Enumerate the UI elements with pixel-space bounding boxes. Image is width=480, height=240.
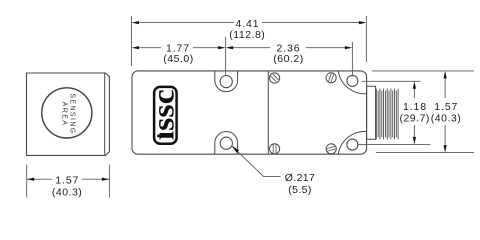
issc logo i-dot [157, 135, 160, 138]
svg-text:(40.3): (40.3) [431, 113, 461, 125]
dim 1.18 arrows [413, 81, 416, 89]
dim 1.57 extension line top [372, 70, 474, 72]
svg-text:1.18: 1.18 [403, 101, 427, 113]
dim mid extension line [225, 37, 227, 75]
svg-text:(45.0): (45.0) [163, 53, 193, 65]
issc logo border [154, 87, 177, 144]
svg-text:(112.8): (112.8) [229, 29, 265, 41]
top right ear arc [338, 71, 366, 94]
bottom right ear arc [338, 131, 366, 154]
screw top-right [326, 73, 336, 83]
dim 1.57 right line [444, 74, 446, 98]
dim 2.36 extension line right [351, 42, 353, 75]
connector flange [367, 86, 376, 139]
svg-text:(29.7): (29.7) [399, 113, 429, 125]
svg-text:4.41: 4.41 [235, 18, 259, 30]
hole diameter leader arrowhead [231, 145, 239, 153]
dim 1.57 right arrows [444, 71, 447, 79]
front width dim arrows [27, 178, 35, 181]
hole diameter leader line [238, 151, 281, 176]
dim 4.41 arrows [132, 21, 140, 24]
screw bottom-left [270, 144, 280, 154]
dim 1.18 extension line bottom [358, 143, 430, 145]
screw bottom-right [326, 144, 336, 154]
front width dim line 1.57 [27, 178, 52, 180]
screw top-left [270, 73, 280, 83]
sensing area circle [42, 88, 92, 138]
top mounting hole [220, 76, 232, 88]
top mounting tab [215, 71, 238, 91]
dim 4.41 extension line left [131, 16, 133, 66]
dim 1.18 line [413, 84, 415, 98]
side view body outline [132, 71, 367, 154]
svg-text:(40.3): (40.3) [52, 186, 82, 198]
dim 2.36 arrows [226, 46, 234, 49]
dim 1.18 extension line top [362, 80, 421, 82]
front view outline [27, 73, 110, 155]
dim 1.77 line [135, 47, 162, 49]
svg-text:Ø.217: Ø.217 [285, 172, 316, 184]
svg-text:ıssc: ıssc [146, 89, 181, 140]
svg-text:SENSINGAREA: SENSINGAREA [60, 93, 75, 134]
dim 1.77 arrows [132, 46, 140, 49]
bottom mounting hole [220, 137, 232, 149]
svg-text:(5.5): (5.5) [288, 184, 312, 196]
body section divider [267, 71, 269, 154]
front width dim extension line right [108, 165, 110, 198]
svg-text:1.57: 1.57 [55, 174, 79, 186]
svg-text:1.57: 1.57 [434, 101, 458, 113]
dim 2.36 line [229, 47, 270, 49]
connector threads [376, 89, 398, 140]
svg-text:(60.2): (60.2) [273, 53, 303, 65]
front view side edge line [104, 73, 106, 155]
dim 4.41 extension line right [365, 16, 367, 62]
dim 4.41 line [135, 22, 235, 24]
bottom mounting tab [215, 132, 238, 154]
bottom right ear hole [347, 139, 358, 150]
top right ear hole [347, 75, 358, 86]
dim 1.57 extension line bottom [376, 152, 474, 154]
front width dim extension line left [26, 165, 28, 198]
